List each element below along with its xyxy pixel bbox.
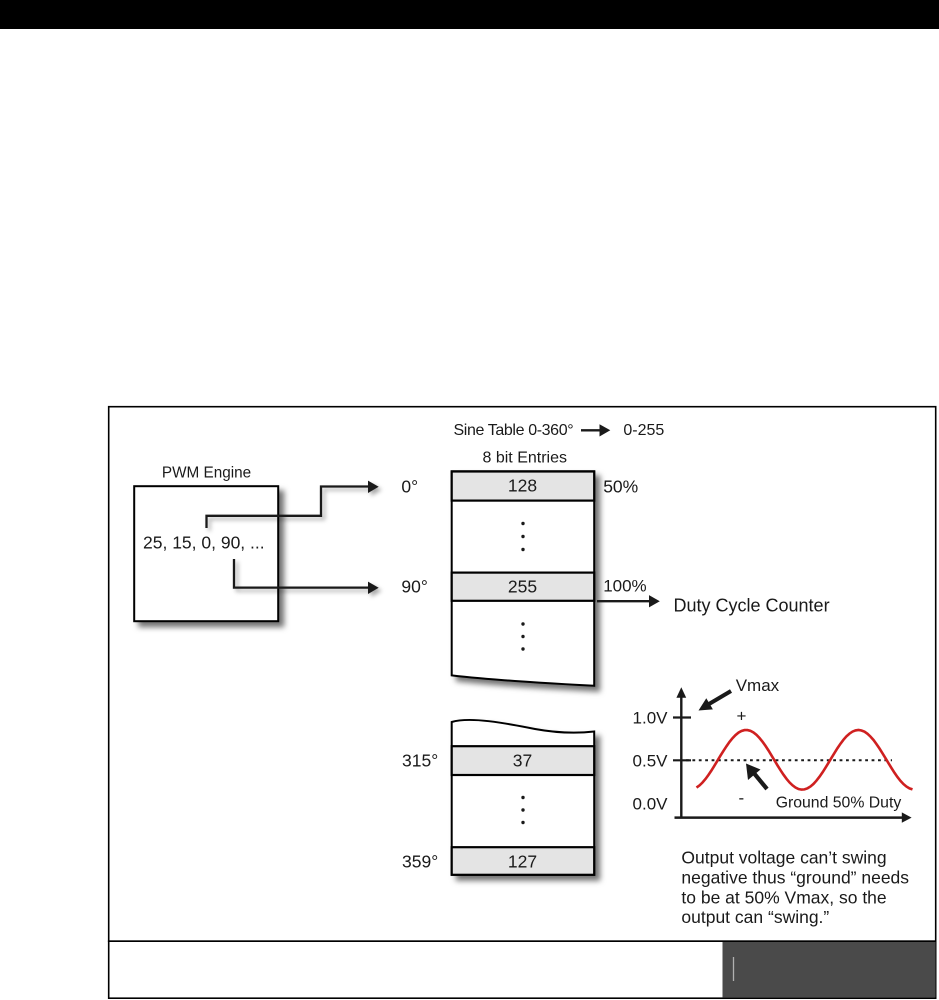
dots between 315° and 359° rows xyxy=(521,796,524,799)
tick 1.0V xyxy=(673,716,691,718)
wire: arrow from "90" entry to 90° xyxy=(234,559,379,594)
footer text cursor xyxy=(733,957,735,981)
wire: arrow to Duty Cycle Counter xyxy=(597,600,650,602)
PWM Engine box (with drop shadow) xyxy=(134,486,278,621)
svg-text:to be at 50% Vmax, so the: to be at 50% Vmax, so the xyxy=(681,887,886,907)
graph x-axis xyxy=(675,816,904,819)
row 0°: value 128 (gray) xyxy=(452,472,595,501)
dashed 50% line xyxy=(686,759,892,761)
svg-text:37: 37 xyxy=(513,751,532,771)
svg-text:100%: 100% xyxy=(603,577,646,596)
svg-text:255: 255 xyxy=(508,576,537,596)
svg-text:0-255: 0-255 xyxy=(623,422,664,439)
red sine waveform xyxy=(697,730,913,790)
svg-text:Output voltage can’t swing: Output voltage can’t swing xyxy=(681,848,886,868)
row 359°: value 127 (gray) xyxy=(452,847,595,875)
svg-text:Sine Table 0-360°: Sine Table 0-360° xyxy=(454,422,574,439)
dots between 0° and 90° rows xyxy=(521,522,524,525)
svg-text:0.5V: 0.5V xyxy=(633,751,669,770)
svg-text:127: 127 xyxy=(508,852,537,872)
svg-text:Ground 50% Duty: Ground 50% Duty xyxy=(776,794,902,811)
svg-text:negative thus “ground” needs: negative thus “ground” needs xyxy=(681,867,909,887)
wire: arrow from "0" entry to 0° xyxy=(207,481,379,528)
svg-text:-: - xyxy=(739,789,745,808)
sine table lower page (wavy top) xyxy=(452,720,595,875)
svg-text:1.0V: 1.0V xyxy=(633,708,669,727)
svg-text:Duty Cycle Counter: Duty Cycle Counter xyxy=(674,595,830,615)
row 315°: value 37 (gray) xyxy=(452,746,595,775)
Ground pointer arrow xyxy=(753,772,767,789)
graph y-axis xyxy=(680,695,682,818)
Vmax pointer arrow xyxy=(709,691,731,704)
footer dark gray block xyxy=(723,942,936,997)
top black header bar xyxy=(0,0,939,29)
svg-text:PWM Engine: PWM Engine xyxy=(162,464,251,481)
svg-text:+: + xyxy=(737,707,747,726)
row 90°: value 255 (gray) xyxy=(452,573,595,601)
sine table upper page (wavy bottom) xyxy=(452,471,595,686)
svg-text:8 bit Entries: 8 bit Entries xyxy=(483,450,567,467)
svg-text:50%: 50% xyxy=(603,477,638,497)
footer box xyxy=(109,941,936,998)
title arrow xyxy=(581,429,600,431)
figure frame (outer diagram box) xyxy=(109,407,936,942)
svg-text:128: 128 xyxy=(508,475,537,495)
svg-text:359°: 359° xyxy=(402,851,438,871)
tick 0.5V xyxy=(673,759,691,761)
svg-text:output can “swing.”: output can “swing.” xyxy=(681,907,829,927)
svg-text:90°: 90° xyxy=(401,576,427,596)
svg-text:0.0V: 0.0V xyxy=(633,794,669,813)
svg-text:Vmax: Vmax xyxy=(736,676,780,695)
svg-text:0°: 0° xyxy=(401,476,418,496)
svg-text:315°: 315° xyxy=(402,750,438,770)
svg-text:25, 15, 0, 90, ...: 25, 15, 0, 90, ... xyxy=(143,532,265,552)
dots below 255 row xyxy=(521,622,524,625)
